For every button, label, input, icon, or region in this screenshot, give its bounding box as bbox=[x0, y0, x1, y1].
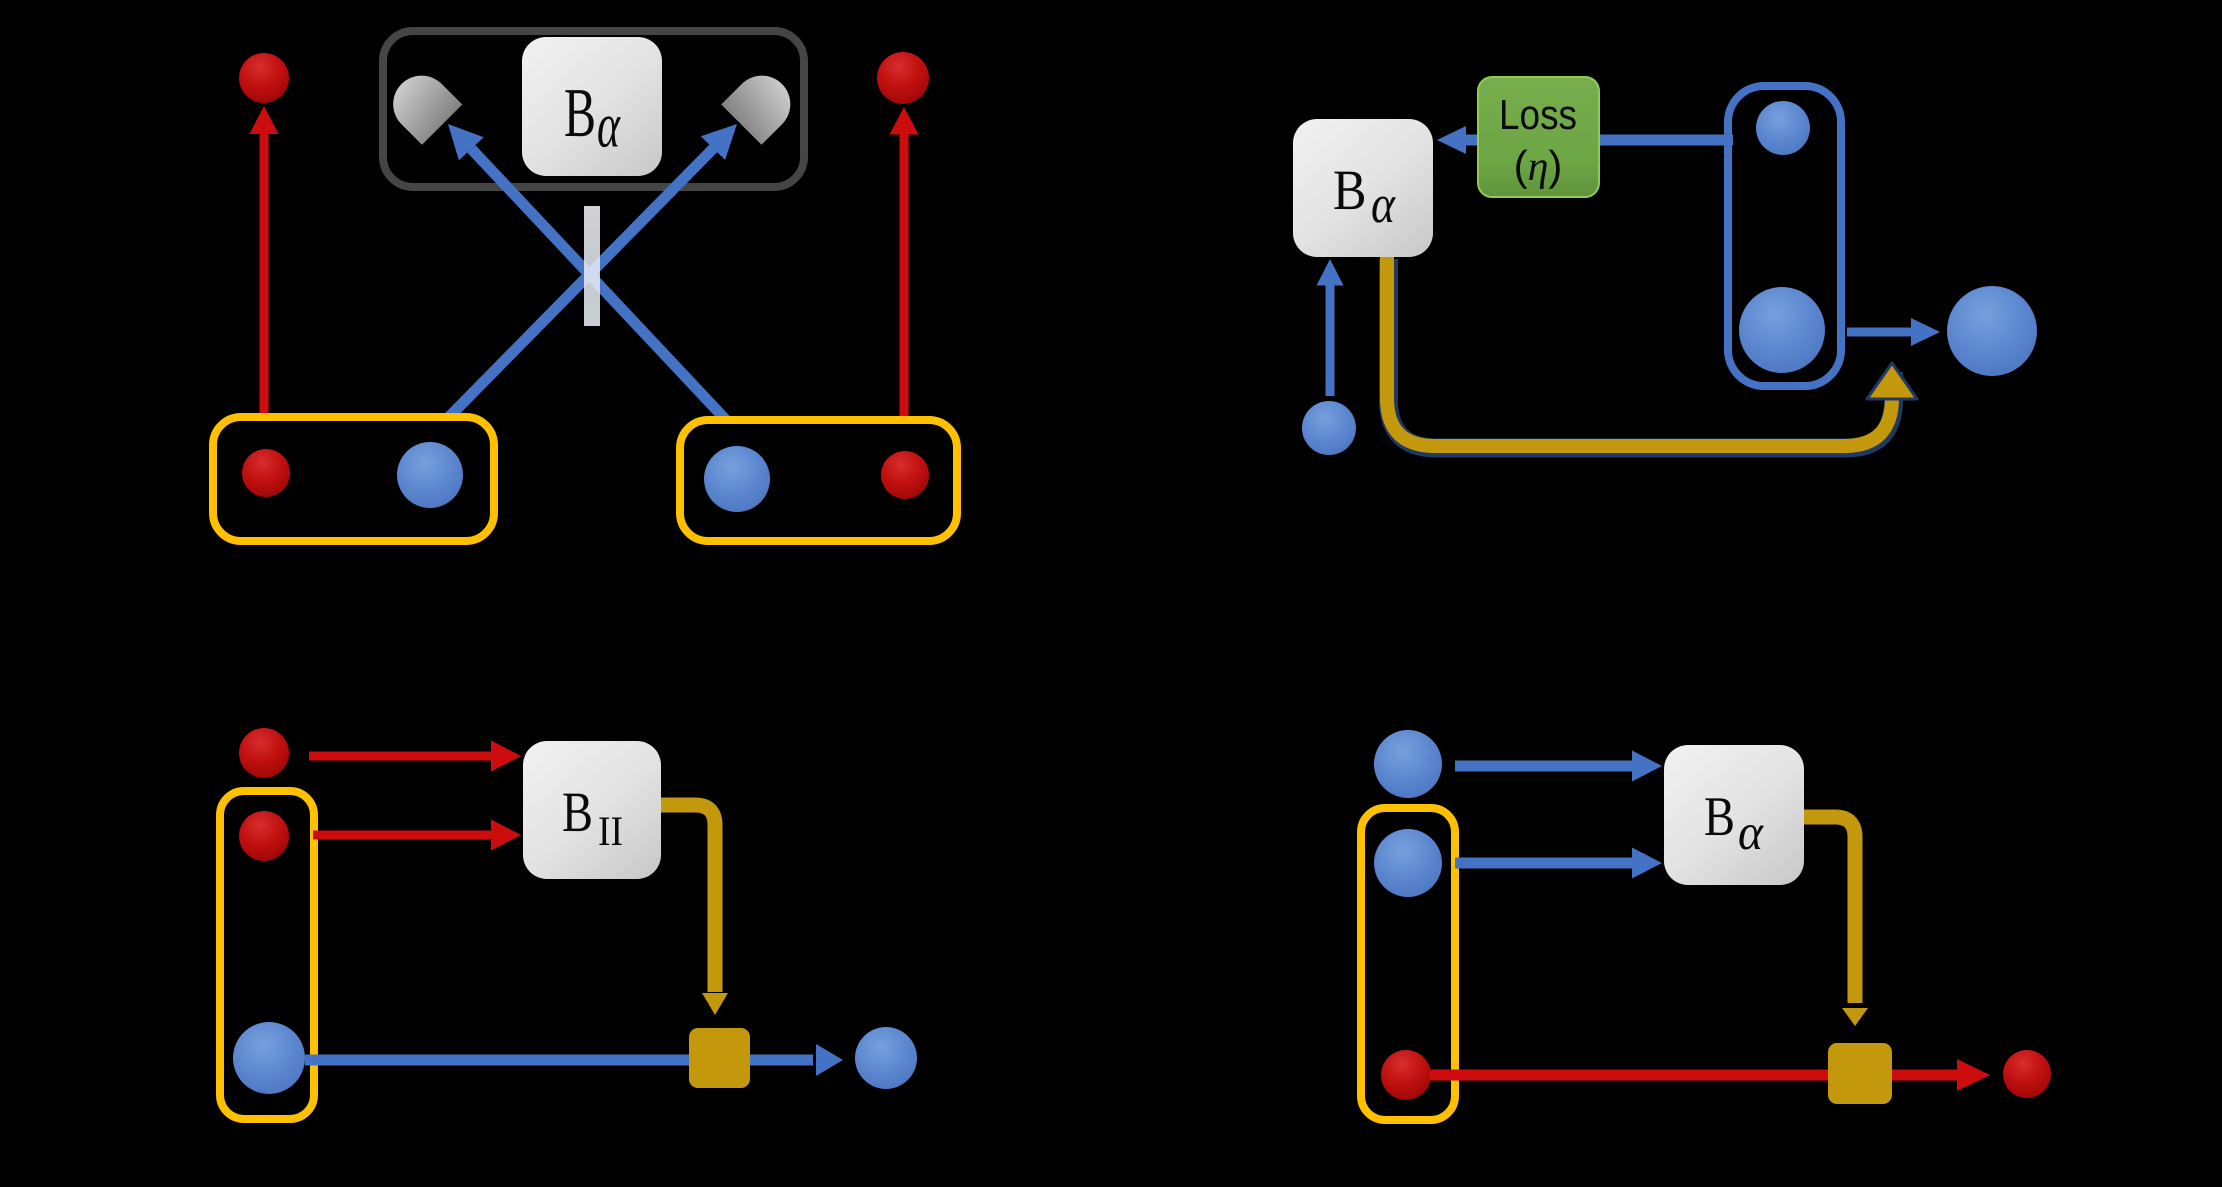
panel D blue qubit 2 bbox=[1374, 829, 1442, 897]
panel D ensemble box bbox=[1361, 808, 1455, 1120]
svg-text:α: α bbox=[1371, 174, 1396, 234]
panel B lower blue qubit bbox=[1302, 401, 1356, 455]
svg-text:α: α bbox=[597, 90, 621, 161]
panel C gold wire from Bell box to corrector bbox=[661, 805, 728, 1015]
panel C output blue qubit bbox=[855, 1027, 917, 1089]
panel C red qubit 1 bbox=[239, 728, 289, 778]
svg-text:B: B bbox=[562, 781, 593, 844]
panel C Bell box B_II bbox=[523, 741, 661, 879]
panel B memory small blue qubit bbox=[1756, 101, 1810, 155]
panel C red arrow wire 1 bbox=[309, 741, 521, 772]
panel A detector housing box bbox=[383, 31, 804, 187]
panel A wire: blue beam from left ensemble to right detector bbox=[449, 124, 737, 417]
panel C corrector gold square bbox=[689, 1028, 750, 1088]
panel A right detector bbox=[721, 76, 790, 145]
panel A wire: blue beam from right ensemble to left detector bbox=[448, 124, 726, 420]
svg-text:(η): (η) bbox=[1514, 142, 1563, 190]
panel C blue wire to corrector bbox=[305, 1055, 689, 1066]
panel D corrector gold square bbox=[1828, 1043, 1892, 1104]
panel A right ensemble blue qubit bbox=[704, 446, 770, 512]
panel A left top red qubit bbox=[239, 53, 289, 103]
panel A right top red qubit bbox=[877, 52, 929, 104]
svg-text:B: B bbox=[1704, 786, 1735, 848]
panel D blue arrow wire 2 bbox=[1455, 848, 1662, 879]
panel A Bell box B_alpha bbox=[522, 37, 662, 176]
panel A left red arrow wire bbox=[250, 106, 279, 417]
panel D blue qubit 1 bbox=[1374, 730, 1442, 798]
panel B gold feedback wire with navy outline bbox=[1387, 257, 1917, 448]
panel A right red arrow wire bbox=[890, 107, 919, 420]
panel B memory large blue qubit bbox=[1739, 287, 1825, 373]
panel A right ensemble box bbox=[680, 420, 957, 541]
panel D red wire to corrector bbox=[1430, 1070, 1828, 1081]
panel A left ensemble box bbox=[213, 417, 494, 541]
panel D Bell box B_alpha bbox=[1664, 745, 1804, 885]
panel A right ensemble red qubit bbox=[881, 451, 929, 499]
svg-text:II: II bbox=[598, 809, 623, 855]
panel B Bell box B_alpha bbox=[1293, 119, 1433, 257]
panel C blue qubit in ensemble bbox=[233, 1022, 305, 1094]
panel A left ensemble red qubit bbox=[242, 449, 290, 497]
panel C red arrow wire 2 bbox=[313, 820, 521, 851]
panel D red qubit in ensemble bbox=[1381, 1050, 1431, 1100]
svg-text:Loss: Loss bbox=[1499, 91, 1577, 138]
panel C red qubit 2 bbox=[239, 811, 289, 861]
panel A beamsplitter bbox=[584, 206, 600, 326]
svg-text:B: B bbox=[564, 75, 596, 152]
panel D red output arrow wire bbox=[1892, 1059, 1990, 1091]
panel D blue arrow wire 1 bbox=[1455, 751, 1662, 782]
panel B blue wire from memory to loss bbox=[1437, 126, 1733, 154]
panel A left detector bbox=[393, 76, 462, 145]
panel D output red qubit bbox=[2003, 1050, 2051, 1098]
svg-text:B: B bbox=[1333, 159, 1367, 222]
panel C blue output arrow wire bbox=[750, 1044, 843, 1076]
panel A left ensemble blue qubit bbox=[397, 442, 463, 508]
panel B output blue qubit bbox=[1947, 286, 2037, 376]
panel B blue output arrow wire bbox=[1847, 318, 1940, 346]
panel B blue up arrow wire bbox=[1317, 259, 1344, 396]
panel C ensemble box bbox=[220, 791, 314, 1119]
svg-text:α: α bbox=[1738, 805, 1764, 861]
panel B memory box bbox=[1728, 86, 1841, 386]
panel B loss box bbox=[1478, 77, 1599, 197]
panel D gold wire from Bell box to corrector bbox=[1804, 817, 1868, 1026]
